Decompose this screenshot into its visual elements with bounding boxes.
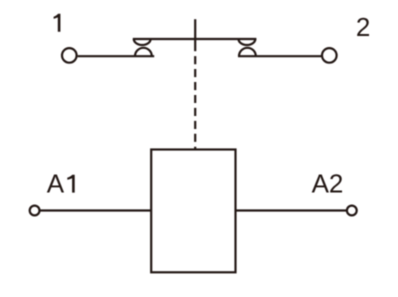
movable bridge bar [133,38,257,40]
wire coil to A2 [236,209,347,211]
coil rectangle [151,150,235,273]
svg-text:A: A [47,169,65,199]
terminal circle 2 [322,48,337,63]
right fixed contact dome [239,48,256,56]
mechanical link dashed segment [194,56,196,149]
terminal circle A1 [30,206,40,216]
terminal circle A2 [347,206,357,216]
left movable contact cup [134,39,151,45]
svg-text:A2: A2 [312,169,344,199]
mechanical link solid segment [194,19,196,51]
right movable contact cup [239,39,256,45]
svg-text:2: 2 [356,12,370,42]
wire A1 to coil [40,209,151,211]
left fixed contact dome [135,48,152,56]
wire right fixed contact to terminal2 [238,55,321,57]
terminal circle 1 [62,48,77,63]
wire terminal1 to left fixed contact [78,55,155,57]
label 1 (terminal 1) [54,14,61,32]
